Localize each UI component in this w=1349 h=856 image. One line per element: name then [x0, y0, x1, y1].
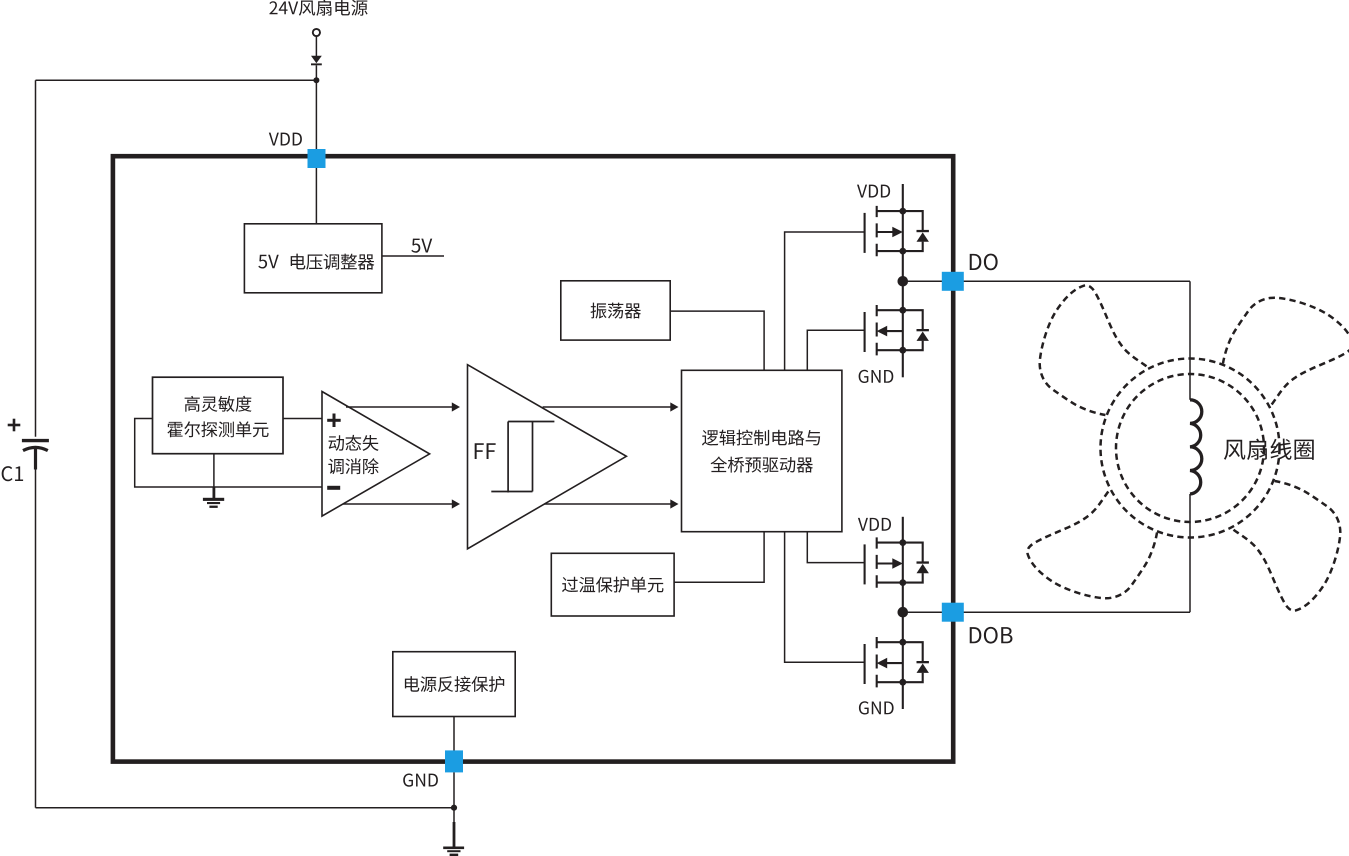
fan blade 4 (dashed) — [1027, 492, 1157, 599]
fan blade 2 (dashed) — [1223, 298, 1349, 405]
label VDD (Q3) — [858, 518, 891, 531]
GND stub Q4 — [902, 682, 904, 709]
inductor fan coil — [1190, 400, 1202, 494]
wire arrow FF to logic (top) — [543, 406, 672, 408]
label GND pin — [403, 773, 438, 786]
plus input mark — [327, 414, 341, 428]
wire Q3 source to Q4 drain through node DOB — [902, 583, 904, 643]
wire left rail lower (C1 to bottom) — [35, 470, 37, 808]
wire gate Q3 to logic — [807, 532, 864, 563]
wire arrow comparator to FF (bottom) — [343, 503, 453, 505]
label 24V fan supply — [269, 0, 367, 16]
minus input mark — [327, 486, 340, 490]
label GND (Q2) — [859, 370, 894, 383]
pad DOB — [942, 603, 964, 622]
label 5V output — [411, 239, 432, 253]
transistor Q4 (low-side B) — [865, 637, 929, 687]
wire oscillator to logic — [670, 311, 764, 370]
wire bottom horizontal to GND junction — [36, 807, 455, 809]
label C1 — [2, 466, 23, 481]
pad GND — [445, 750, 463, 772]
ground symbol (hall) — [203, 498, 224, 508]
wire arrow comparator to FF (top) — [346, 406, 453, 408]
transistor Q3 (high-side B) — [865, 537, 929, 587]
wire gate Q2 to logic — [807, 330, 864, 370]
wire hall right output to comparator plus — [283, 418, 322, 420]
label fan coil — [1224, 439, 1314, 460]
wire top-left horizontal from supply junction to left rail — [36, 79, 317, 81]
wire junction to VDD pad — [315, 80, 317, 150]
wire terminal to diode — [315, 36, 317, 56]
GND stub Q2 — [902, 350, 904, 377]
wire 5V output — [382, 255, 444, 257]
ground symbol (main) — [443, 847, 464, 856]
label VDD (Q1) — [857, 185, 890, 198]
block oscillator — [561, 281, 670, 340]
transistor Q2 (low-side A) — [865, 305, 929, 355]
wire gate Q1 to logic — [785, 232, 865, 370]
node DOB — [898, 607, 909, 618]
pad VDD — [308, 149, 326, 168]
block over-temperature protection — [551, 553, 674, 616]
diode D1 — [311, 56, 322, 66]
wire node DOB to pad and fan — [903, 611, 1190, 613]
wire Q1 source to Q2 drain through node DO — [902, 251, 904, 310]
wire arrow FF to logic (bottom) — [544, 503, 671, 505]
fan hub circles (dashed) — [1101, 359, 1280, 538]
junction node ground — [451, 805, 457, 811]
VDD stub Q1 — [902, 184, 904, 211]
node DO — [898, 276, 909, 287]
fan blade 3 (dashed) — [1234, 481, 1341, 611]
terminal 24V supply — [313, 29, 320, 36]
wire node DO to pad and fan — [903, 280, 1190, 282]
wire VDD pad to regulator — [315, 168, 317, 224]
label DO — [970, 254, 998, 271]
plus polarity mark of C1 — [8, 419, 21, 432]
op-amp comparator dynamic offset cancellation — [322, 392, 430, 517]
comparator FF schmitt trigger — [468, 365, 627, 549]
wire fan loop right side lower — [1189, 494, 1191, 612]
fan blade 1 (dashed) — [1040, 285, 1147, 415]
wire diode to junction — [315, 65, 317, 80]
transistor Q1 (high-side A) — [865, 206, 929, 256]
wire GND pad to ground junction — [453, 772, 455, 807]
block reverse supply protection — [393, 652, 515, 717]
wire junction to earth — [453, 808, 455, 824]
label GND (Q4) — [859, 701, 894, 714]
block U1 5V voltage regulator — [244, 224, 382, 293]
wire reverse-protection to GND pad — [453, 717, 455, 752]
VDD stub Q3 — [902, 517, 904, 543]
label VDD pin — [269, 133, 302, 146]
label DOB — [970, 627, 1013, 644]
wire left rail upper (to C1 top) — [35, 80, 37, 437]
junction node supply — [313, 77, 319, 83]
wire over-temp to logic — [674, 532, 764, 583]
wire hall left output loop to comparator minus — [135, 419, 322, 488]
IC boundary box — [113, 156, 953, 761]
pad DO — [942, 272, 964, 291]
block Hall detector — [153, 377, 284, 454]
capacitor C1 — [22, 441, 49, 470]
wire gate Q4 to logic — [785, 532, 865, 663]
wire fan loop right side upper — [1189, 281, 1191, 400]
wire hall to ground — [213, 454, 215, 487]
hysteresis symbol — [491, 422, 554, 493]
block logic control and full-bridge pre-driver — [682, 370, 842, 531]
